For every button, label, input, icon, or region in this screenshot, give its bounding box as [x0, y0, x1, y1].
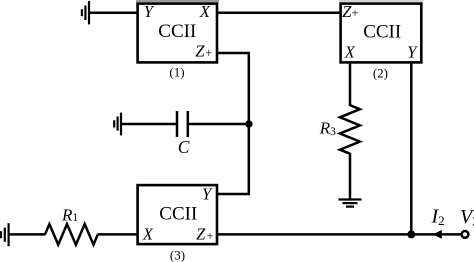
- output node junction dot: [407, 230, 415, 238]
- resistor R1: [45, 224, 98, 245]
- svg-text:Z+: Z+: [342, 2, 358, 21]
- wire capacitor C to node A: [189, 123, 249, 126]
- wire X pin of CCII (2) down to resistor R3: [349, 63, 352, 106]
- terminal V2 (open circle): [462, 231, 469, 238]
- CCII block (2): [341, 4, 422, 63]
- node A junction dot: [245, 120, 252, 127]
- svg-text:X: X: [344, 42, 356, 61]
- svg-text:CCII: CCII: [363, 21, 401, 42]
- ground (at resistor R1): [1, 223, 9, 246]
- svg-text:(1): (1): [169, 65, 184, 80]
- wire Z+ pin of CCII (3) to output node and terminal: [217, 233, 462, 236]
- svg-text:(3): (3): [170, 247, 185, 262]
- svg-text:C: C: [178, 137, 190, 157]
- svg-text:(2): (2): [373, 65, 388, 80]
- wire ground to resistor R1: [8, 233, 46, 236]
- wire resistor R1 to X pin of CCII (3): [98, 233, 139, 236]
- ground (at capacitor C): [114, 113, 121, 136]
- svg-text:V2: V2: [460, 206, 474, 228]
- wire resistor R3 to ground: [349, 153, 352, 200]
- wire X pin of CCII (1) to Z+ pin of CCII (2): [217, 11, 342, 14]
- CCII block (3): [138, 185, 217, 244]
- svg-text:X: X: [199, 2, 211, 21]
- capacitor C: [177, 111, 188, 137]
- resistor R3: [340, 105, 360, 154]
- wire Y pin of CCII (2) down to output node: [410, 63, 413, 234]
- shade artifact above CCII (1): [136, 0, 219, 2]
- shade artifact above CCII (2): [339, 0, 423, 2]
- ground (below R3): [339, 200, 362, 207]
- wire ground to Y pin of CCII (1): [88, 11, 138, 14]
- wire ground to capacitor C: [120, 123, 176, 126]
- wire Z+ pin of CCII (1) to node A to Y pin of CCII (3): [217, 53, 249, 194]
- svg-text:X: X: [142, 225, 154, 244]
- ground (at Y input of CCII 1): [82, 1, 89, 24]
- CCII block (1): [138, 4, 217, 63]
- svg-text:CCII: CCII: [158, 21, 196, 42]
- current arrow I2: [433, 230, 442, 239]
- svg-text:CCII: CCII: [159, 203, 197, 224]
